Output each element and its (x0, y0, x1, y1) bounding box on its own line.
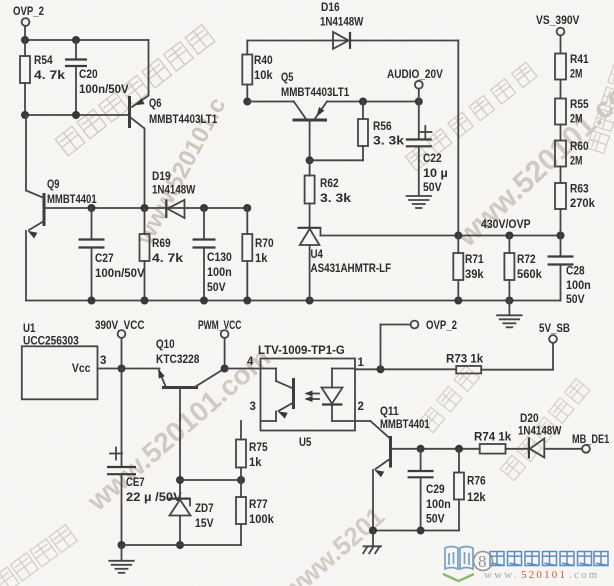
node OVP_2 terminal (bottom) (411, 321, 419, 329)
wire top rail y40 (25, 39, 149, 41)
junction y115 at C20 (72, 111, 80, 119)
capacitor C29 (420, 449, 422, 471)
junction Q10 base R75 wire (176, 476, 184, 484)
junction y115 at R54 (21, 111, 29, 119)
resistor R62 (309, 160, 311, 175)
resistor R74 (480, 444, 506, 454)
wire base junction to R75/R77 (180, 479, 241, 481)
resistor R41 (555, 54, 566, 80)
ground below bus at R72 (508, 301, 510, 316)
wire D16 left drop to R40 (246, 41, 248, 55)
node VS_390V terminal (557, 28, 565, 36)
zener ZD7 (179, 480, 181, 499)
junction bus R71 (454, 297, 462, 305)
junction PWM_VCC pin4 (221, 365, 229, 373)
junction y208 C27 (88, 204, 96, 212)
resistor R60 (555, 141, 566, 167)
junction ZD7 ground bus (176, 541, 184, 549)
wire R73 to 5V_SB (481, 369, 553, 371)
wire OVP_2 to top rail (24, 26, 26, 40)
capacitor C22 polarized (418, 102, 420, 140)
wire R74 to D20 (506, 448, 529, 450)
junction 430V rail R72 (505, 232, 513, 240)
logo circled 8 (474, 552, 493, 571)
wire PWM junction to opto pin4 (225, 368, 261, 370)
junction 430V rail R63-C28 (557, 232, 565, 240)
junction y448 C29 (417, 445, 425, 453)
wire 430V/OVP rail (321, 235, 561, 237)
wire Q5 base down (309, 120, 311, 160)
wire Q6 collector down (144, 129, 146, 209)
transistor Q10 (162, 386, 198, 389)
junction bus R72 (505, 297, 513, 305)
capacitor CE7 polarized (121, 369, 123, 467)
diode D19 (165, 200, 167, 219)
wire R40 junction to Q5 collector (247, 101, 293, 103)
junction bus U4 (306, 297, 314, 305)
wire R60-R63 (560, 167, 562, 184)
transistor Q5 (293, 119, 328, 122)
node AUDIO_20V terminal (418, 89, 420, 102)
wire base rail y115 (25, 114, 128, 116)
wire node-A rail y208 (44, 207, 247, 209)
ground below Q11 (hatched) (372, 531, 374, 547)
logo site name (490, 552, 504, 566)
ground below C22 (407, 195, 432, 197)
junction rail C22 (415, 98, 423, 106)
wire Q11 collector rail y448 (391, 448, 480, 450)
resistor R76 (458, 449, 460, 473)
junction rail R56 (359, 98, 367, 106)
transistor Q11 (389, 436, 392, 468)
wire R56 bottom to base junction (310, 159, 363, 161)
junction y208 R69 (141, 204, 149, 212)
wire ground bus bottom-left (122, 544, 242, 546)
optocoupler U5 box (261, 359, 356, 431)
logo book icon (445, 547, 473, 570)
junction y208 R70 (243, 204, 251, 212)
wire Q5 emitter rail (327, 101, 419, 103)
junction Q5 base R62 R56 (306, 156, 314, 164)
node 5V_SB terminal (549, 335, 557, 343)
junction top rail at C20 (72, 36, 80, 44)
node MB_DE1 terminal (582, 445, 590, 453)
wire opto pin2 to Q11 base (355, 420, 371, 422)
resistor R69 (144, 208, 146, 234)
capacitor C28 (560, 236, 562, 257)
wire ground bus y300 (26, 300, 561, 302)
resistor R75 (240, 421, 242, 440)
opto phototransistor (261, 368, 277, 370)
resistor R63 (555, 183, 566, 209)
resistor R73 (456, 366, 481, 374)
ground below CE7 (121, 545, 123, 561)
node OVP_2 terminal (top-left) (22, 18, 30, 26)
junction R40-R61-Q5 (243, 98, 251, 106)
junction pin1 OVP_2 branch (377, 365, 385, 373)
junction bus C27 (88, 297, 96, 305)
junction R75 R77 (237, 476, 245, 484)
capacitor C130 (203, 208, 205, 239)
wire R55-R60 (560, 125, 562, 141)
opto LED (332, 368, 355, 370)
wire OVP_2 branch (380, 325, 382, 370)
IC U1 UCC256303 (22, 346, 98, 399)
capacitor C20 (75, 40, 77, 59)
junction bus C130 (200, 297, 208, 305)
diode D16 (333, 32, 349, 49)
opto coupling arrows (307, 393, 319, 395)
wire D20 to MB_DE1 (544, 448, 582, 450)
wire Q11 emitter bus y530 (373, 530, 459, 532)
capacitor C27 (91, 208, 93, 239)
junction bus R69 (141, 297, 149, 305)
resistor R54 (24, 40, 26, 56)
resistor R71 (457, 236, 459, 254)
wire R63 to 430V rail (560, 209, 562, 236)
wire D16 rail y40 (247, 40, 458, 42)
junction y208 C130 (200, 204, 208, 212)
wire R41-R55 (560, 80, 562, 99)
transistor Q9 (43, 193, 46, 226)
wire U1 pin3 to Q10 (98, 368, 160, 370)
junction y530 emitter-gnd (369, 527, 377, 535)
transistor Q6 (128, 96, 131, 128)
junction bus R70 (243, 297, 251, 305)
junction y530 C29 (417, 527, 425, 535)
junction top rail at R54 (21, 36, 29, 44)
resistor R77 (240, 480, 242, 497)
resistor R70 (246, 208, 248, 234)
junction CE7 ground bus (118, 541, 126, 549)
resistor R40 (242, 55, 252, 85)
wire opto pin1 rail (355, 368, 456, 370)
junction 430V rail R71 (454, 232, 462, 240)
junction pin3 390V_VCC (118, 365, 126, 373)
shunt-regulator U4 AS431 (298, 227, 321, 229)
diode D20 (528, 438, 530, 459)
resistor R55 (555, 99, 566, 125)
resistor R56 (362, 102, 364, 120)
junction y448 R76 (455, 445, 463, 453)
resistor R72 (508, 236, 510, 254)
wire D16 right drop to 430V/OVP (457, 41, 459, 236)
